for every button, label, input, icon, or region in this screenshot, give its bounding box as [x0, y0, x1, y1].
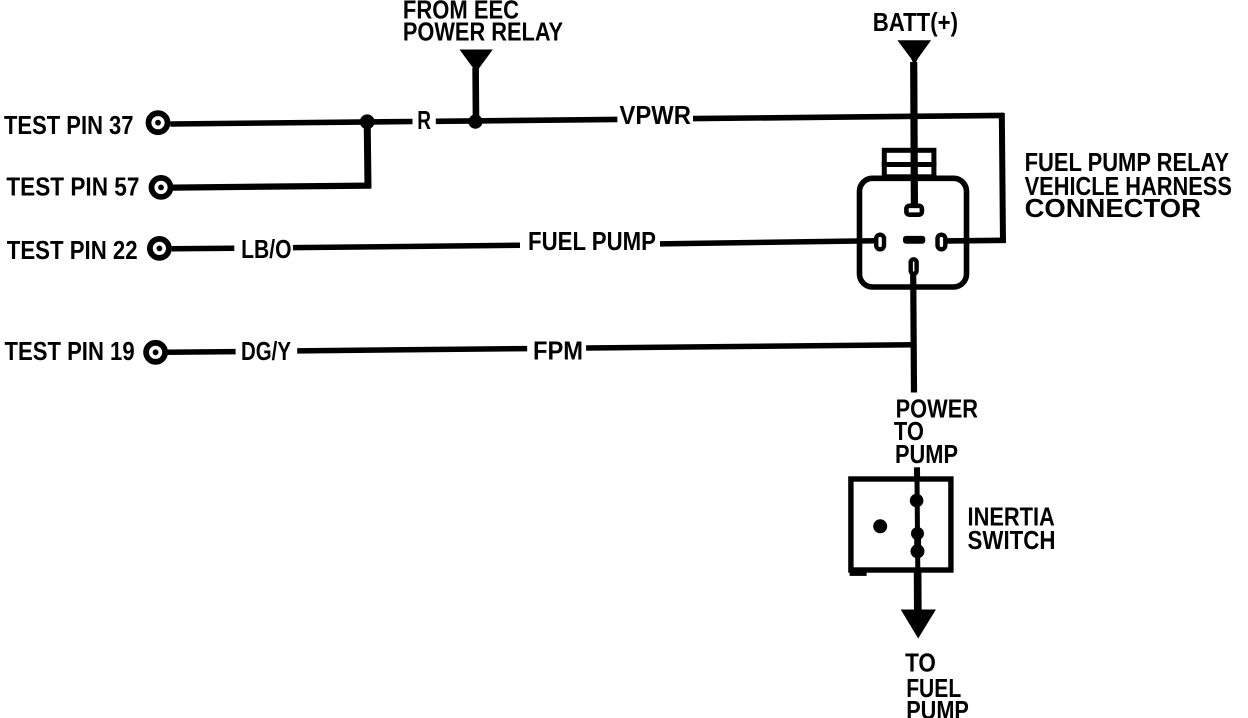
svg-text:CONNECTOR: CONNECTOR [1025, 193, 1202, 223]
svg-text:R: R [417, 105, 431, 135]
svg-text:PUMP: PUMP [895, 439, 958, 469]
svg-text:TEST PIN 57: TEST PIN 57 [6, 172, 139, 202]
svg-text:BATT(+): BATT(+) [873, 7, 958, 37]
svg-text:FUEL PUMP: FUEL PUMP [528, 226, 656, 256]
svg-text:DG/Y: DG/Y [241, 336, 291, 366]
svg-text:TEST PIN 19: TEST PIN 19 [5, 336, 135, 366]
svg-text:POWER RELAY: POWER RELAY [403, 17, 563, 47]
svg-text:PUMP: PUMP [906, 695, 969, 718]
svg-text:LB/O: LB/O [241, 234, 291, 264]
svg-text:SWITCH: SWITCH [968, 525, 1056, 555]
svg-text:TEST PIN 37: TEST PIN 37 [4, 110, 134, 140]
svg-text:FPM: FPM [533, 335, 583, 365]
svg-text:TEST PIN 22: TEST PIN 22 [7, 235, 138, 265]
svg-text:VPWR: VPWR [620, 100, 692, 130]
